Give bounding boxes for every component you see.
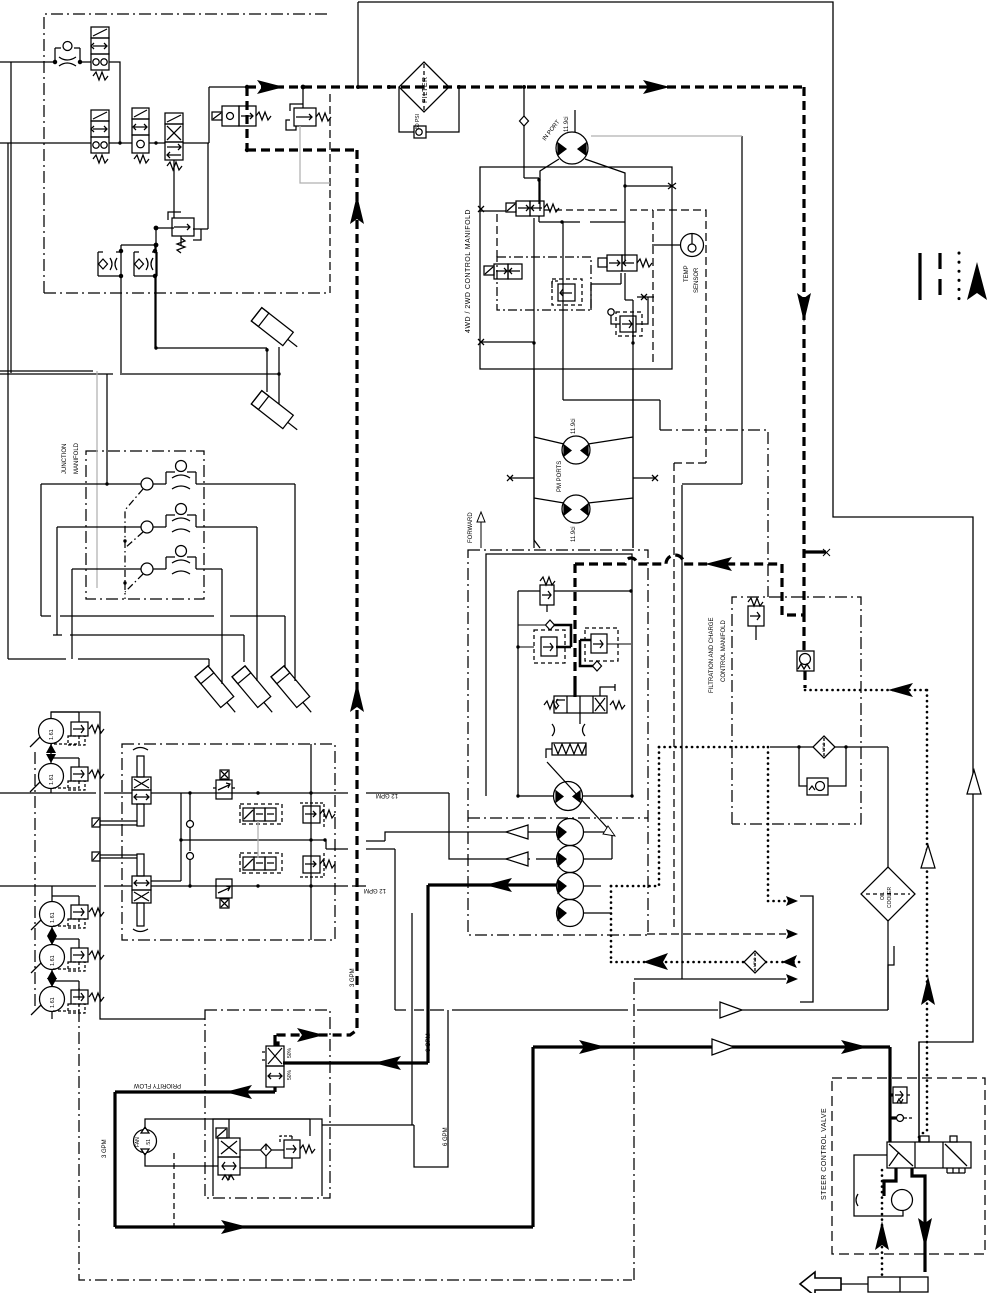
valve drive directional — [544, 684, 625, 713]
wire pump inlet from main — [524, 87, 539, 204]
component case drain diamond filter — [744, 951, 766, 973]
valve V4 solenoid 4way — [165, 113, 183, 170]
wire thick dashed charge y564 — [575, 555, 782, 564]
component oil cooler — [861, 867, 915, 921]
legend dashed bar — [938, 253, 941, 300]
component wheel relief R3 — [52, 896, 104, 928]
component compensator bottom — [216, 879, 232, 908]
valve drive solenoid bottom — [240, 853, 282, 873]
component junction orifice 3 — [166, 546, 196, 575]
component coupler 2 — [557, 846, 584, 873]
component cylinder S1 — [251, 308, 302, 353]
wire junction pilot dash-dot — [125, 489, 143, 599]
svg-text:1.61: 1.61 — [50, 912, 56, 923]
wire servo relief left thick — [550, 625, 571, 647]
wire junction right drops to cylinders — [222, 484, 295, 684]
valve V3 solenoid 2way — [132, 108, 149, 163]
arrow main y87 right at 265 — [257, 80, 284, 94]
component steer gerotor — [856, 1190, 913, 1211]
valve V1 solenoid 2way — [91, 27, 109, 80]
svg-text:1.61: 1.61 — [49, 729, 55, 740]
wire thick y1063 to priority valve — [283, 1061, 428, 1064]
wire drive line1 y793 — [151, 792, 449, 794]
valve spool1 — [132, 748, 151, 827]
wire cylinder feed y616 — [41, 616, 285, 668]
component junction check 2 — [141, 521, 153, 533]
orifice check unit A — [98, 249, 123, 277]
svg-text:SENSOR: SENSOR — [694, 267, 700, 293]
component cylinder A — [195, 666, 242, 718]
wire 4WD pilot dashed box — [657, 210, 706, 463]
wire thick dashed x357 — [355, 150, 358, 1019]
component compensator top — [213, 770, 236, 799]
arrow bracket y979 right — [786, 974, 798, 984]
wire thick x533 — [531, 1047, 534, 1227]
component strainer unit top-left — [53, 42, 81, 67]
wire drive line2b y849 — [326, 840, 395, 1010]
wire dotted y901 — [768, 900, 786, 903]
wire thick x115 — [113, 1092, 116, 1227]
svg-text:COOLER: COOLER — [887, 886, 893, 908]
wire thick dashed charge x575 — [573, 564, 576, 683]
component lever1 — [92, 818, 137, 827]
wire charge left drop — [517, 591, 519, 796]
arrow legend up — [967, 262, 987, 300]
wire solid y979 to bracket — [634, 978, 786, 980]
svg-text:11.9ci: 11.9ci — [571, 418, 577, 434]
component wheel motor W3 — [31, 902, 65, 931]
wire RV1 drain gray — [300, 126, 330, 183]
wire dotted y886 — [611, 885, 659, 888]
wire junction row3 y569 — [72, 568, 222, 570]
arrow steer dotted up x882 — [875, 1221, 889, 1250]
component filter diamond — [399, 62, 449, 112]
node x481 plug2 — [478, 339, 484, 345]
dotted case drain lines — [611, 690, 927, 1277]
component return strainer — [797, 651, 814, 671]
valve spool2 — [132, 854, 151, 932]
wire thick solid stub into drive valve — [573, 683, 576, 697]
svg-text:MANIFOLD: MANIFOLD — [74, 442, 80, 474]
wire SV1 pilot dashed — [544, 209, 653, 211]
legend dotted bar — [958, 253, 961, 300]
wire orifice drops — [121, 276, 155, 373]
wire main line y143 — [0, 142, 209, 144]
wire thick x890 into steer spool — [888, 1047, 891, 1142]
svg-text:TEMP: TEMP — [684, 265, 690, 282]
svg-text:3 GPM: 3 GPM — [350, 968, 356, 987]
wire charge inner box — [486, 554, 632, 796]
wire fan pump lines — [145, 1119, 310, 1166]
arrow x802 down at 300 — [797, 293, 811, 322]
component inline check diamond — [520, 116, 529, 126]
wire dotted x659 — [658, 747, 661, 886]
wire y400 link — [563, 400, 660, 430]
check open triangle y1010 — [720, 1002, 742, 1018]
arrow dotted x928 up at 990 — [921, 976, 935, 1005]
wire SV1 out y222 — [539, 216, 625, 222]
svg-text:STEER CONTROL VALVE: STEER CONTROL VALVE — [821, 1108, 828, 1200]
wire RV4 feed x156 — [156, 160, 174, 348]
wire thick dashed y150 — [247, 148, 357, 151]
valve V2 solenoid 2way — [91, 110, 109, 163]
node x650 plug — [641, 294, 647, 300]
wire solid vertical x682 — [681, 485, 683, 979]
check open triangle thick y1047 — [712, 1039, 734, 1055]
valve SV1 — [506, 201, 559, 216]
wire pm port stubs — [510, 477, 655, 479]
component drive pump — [554, 782, 583, 811]
wire x209 down from y87 — [209, 87, 247, 143]
wire left drop x8 — [7, 143, 9, 659]
wire drive manifold right vertical — [310, 744, 312, 940]
wire thick dashed x802 to filter — [804, 613, 805, 688]
arrow thick y885 left at 495 — [485, 878, 512, 892]
valve priority flow divider — [262, 1046, 284, 1087]
component coupler 4 — [557, 900, 584, 927]
component wheel relief R5 — [52, 981, 104, 1013]
wire 4WD manifold solid box — [480, 167, 672, 369]
wire RV4 right drain — [193, 143, 208, 240]
wire right lower boundary dash-dot — [633, 979, 635, 1280]
wire 4WD inner dash-dot box — [497, 257, 591, 310]
wire big solid tank-return box top — [358, 2, 973, 1142]
component servo relief left — [534, 630, 565, 663]
component wheel motor W2 — [30, 764, 64, 793]
wire thick drop x428 — [426, 885, 429, 1063]
wire fan return path — [322, 913, 448, 1167]
component check diamond left — [546, 620, 555, 630]
wire servo relief right thick — [580, 640, 599, 666]
wire thick steer check stub — [890, 1116, 896, 1119]
thick solid flow lines — [115, 885, 925, 1272]
component steer check — [897, 1115, 913, 1122]
valve V5 horizontal solenoid — [212, 106, 271, 126]
svg-text:50%: 50% — [287, 1069, 293, 1080]
valve SV3 — [598, 255, 652, 271]
arrow x357 up at 215 — [350, 195, 364, 224]
component cylinder S2 — [251, 391, 302, 436]
arrow main y87 right at 655 — [643, 80, 670, 94]
arrow thick y1227 right at 230 — [221, 1220, 248, 1234]
component junction check 3 — [141, 563, 153, 575]
wire dotted x928 — [919, 690, 927, 1142]
wire thick stub x804 solid — [804, 550, 826, 553]
wire SV1 line — [480, 210, 506, 212]
wire wheel motor chain bottom — [51, 1012, 53, 1019]
component check diamond right — [593, 661, 602, 671]
check open triangle dotted x928 up — [921, 845, 935, 868]
svg-text:50%: 50% — [287, 1047, 293, 1058]
wire tank to arrow — [841, 1283, 868, 1285]
component wheel relief R1 — [51, 712, 104, 745]
wire motors bottom into pump box — [534, 540, 633, 548]
wire drive pump manifold divider — [468, 817, 648, 819]
component wheel motor W5 — [31, 987, 65, 1016]
wire dotted y690 — [805, 689, 927, 692]
wire dotted steer x882 — [881, 1170, 884, 1277]
wire junction left drops — [41, 484, 72, 659]
legend solid bar — [918, 253, 921, 300]
component servo relief right — [585, 628, 618, 661]
relief drive bottom — [300, 853, 335, 877]
valve SV2 proportional — [484, 264, 522, 279]
wire priority inner solid box — [213, 1119, 322, 1196]
wire wheel motor group2 feed — [0, 886, 132, 902]
wire wheel motor line1 to spool — [0, 788, 132, 793]
wire pump bottom — [518, 795, 632, 797]
wire cooler riser — [887, 921, 889, 1010]
component wheel relief R4 — [52, 939, 104, 971]
wire thick dashed y1035 priority — [278, 1019, 357, 1046]
component tow arrow open — [800, 1272, 841, 1293]
arrow thick y1063 left at 385 — [374, 1056, 401, 1070]
arrow steer down x925 — [918, 1218, 932, 1248]
wire drive manifold internal links — [257, 821, 259, 858]
node pm plug right — [652, 475, 658, 481]
wire steer control valve box — [832, 1078, 985, 1254]
component fan pump — [134, 1127, 157, 1155]
wire junction row1 y484 — [41, 483, 295, 485]
arrow dotted y962 left at bracket — [782, 955, 797, 968]
svg-text:CONTROL MANIFOLD: CONTROL MANIFOLD — [721, 620, 727, 682]
node x481 plug — [478, 206, 484, 212]
wire cyl pair1 line y348 — [156, 348, 267, 392]
component manifold filter diamond — [813, 736, 835, 758]
wire return y484 to 4WD — [682, 483, 742, 485]
node dots top-left lines — [118, 85, 280, 376]
wire dashed y934 to bracket — [647, 933, 786, 935]
svg-text:PM PORTS: PM PORTS — [557, 461, 563, 492]
component wheel motor W4 — [31, 945, 65, 974]
wire dashed vertical x673 — [673, 463, 675, 930]
wire bottom machine boundary dash-dot — [79, 988, 632, 1280]
svg-text:FILTER: FILTER — [422, 76, 429, 103]
wire vertical x11 — [10, 62, 12, 373]
wire coupler right links — [583, 832, 612, 886]
big arrowheads — [221, 80, 987, 1250]
node plug x on charge stub — [823, 549, 830, 556]
wire 6gpm line y1010 — [395, 1009, 888, 1011]
relief RV1 — [286, 85, 331, 130]
wire thick y1227 — [115, 1225, 533, 1228]
component charge relief filtration — [748, 598, 764, 640]
wire M1 case return — [741, 136, 743, 484]
orifice check unit B — [134, 249, 157, 277]
component junction check 1 — [141, 478, 153, 490]
svg-text:50 PSI: 50 PSI — [415, 114, 421, 129]
svg-text:3 GPM: 3 GPM — [102, 1139, 108, 1158]
check open triangle y859 — [506, 852, 528, 866]
wire V1 to line jog — [109, 62, 120, 143]
wire thick priority valve inlet stub — [273, 1035, 276, 1046]
arrow y564 left at 715 — [705, 557, 732, 571]
svg-text:6 GPM: 6 GPM — [443, 1127, 449, 1146]
wire drive pump manifold box — [468, 550, 648, 935]
wire motor chain arrows — [46, 744, 57, 987]
relief drive top — [300, 803, 335, 827]
wire fan circuit links — [240, 1119, 310, 1168]
check open triangle x974 up — [967, 770, 981, 794]
wire drive line1 jog to coupler2 — [449, 793, 557, 859]
component tank — [868, 1277, 928, 1292]
node pm plug left — [507, 475, 513, 481]
arrow dotted y962 left at 655 — [643, 953, 668, 970]
wire cylinder feed y635 — [53, 635, 244, 662]
wire SV3 drop — [633, 297, 654, 343]
wire thick y1047 steer supply — [533, 1045, 890, 1048]
node x670 plug — [668, 183, 676, 189]
arrow dotted y690 left at 900 — [888, 683, 913, 697]
svg-text:4WD / 2WD CONTROL MANIFOLD: 4WD / 2WD CONTROL MANIFOLD — [465, 209, 472, 333]
wire machine boundary box A (top-left manifold) — [44, 14, 330, 293]
wire dotted y747 — [659, 746, 768, 749]
svg-text:12 GPM: 12 GPM — [376, 792, 398, 798]
wire box A right edge — [329, 94, 331, 293]
component fan relief — [280, 1136, 315, 1158]
valve fan solenoid — [216, 1128, 240, 1180]
svg-text:FILTRATION AND CHARGE: FILTRATION AND CHARGE — [709, 618, 715, 693]
svg-text:1.61: 1.61 — [50, 997, 56, 1008]
component steer relief — [893, 1087, 912, 1103]
check open triangle y832 — [506, 825, 528, 839]
component filtration check — [807, 778, 828, 795]
svg-text:PRIORITY FLOW: PRIORITY FLOW — [133, 1082, 181, 1088]
wire motor loop left — [534, 369, 564, 540]
svg-text:.51: .51 — [146, 1139, 152, 1146]
wire thick priority flow y1092 — [115, 1087, 275, 1092]
wire drive line3 y886 — [151, 885, 366, 887]
arrow y1035 right at 305 — [297, 1028, 324, 1042]
svg-text:11.9ci: 11.9ci — [571, 526, 577, 542]
component filter bypass check — [414, 126, 426, 138]
wire x181 — [151, 793, 181, 881]
wire steer feed x919 — [918, 1042, 920, 1142]
component junction orifice 1 — [166, 461, 196, 490]
wire charge line y591 — [518, 590, 631, 592]
wire drive line2 y840 — [181, 832, 557, 841]
wire dash-dot link 4WD to filtration — [660, 430, 768, 597]
svg-text:1.61: 1.61 — [49, 774, 55, 785]
component coupler 1 — [557, 819, 584, 846]
wire motor loop right — [588, 369, 633, 540]
wire 4wd bottom collectors — [480, 186, 633, 548]
node junction filter inlet — [357, 2, 359, 87]
wire junction manifold box — [86, 451, 204, 599]
valve drive solenoid top — [240, 804, 282, 824]
arrow bracket y934 right — [786, 929, 798, 939]
wire steer gerotor loop — [854, 1155, 903, 1216]
wire thick dashed main y87 — [247, 85, 802, 88]
arrow thick y1047 right at 855 — [841, 1040, 868, 1054]
svg-text:6 GPM: 6 GPM — [426, 1033, 432, 1052]
wire thick steer work lines — [884, 1168, 896, 1196]
wire junction feed x97 — [96, 371, 98, 588]
wire priority manifold box — [205, 1010, 330, 1198]
component cylinder C — [271, 666, 318, 718]
wire cooler feed y747 — [770, 746, 888, 748]
wire thick coupler3 line y885 — [428, 883, 557, 886]
open triangle checks — [506, 770, 981, 1055]
relief RV2 — [552, 279, 582, 305]
component motor M2 — [562, 436, 590, 464]
wire wheel motor top loop — [51, 712, 205, 1019]
svg-text:1.61: 1.61 — [50, 955, 56, 966]
wire left wheel boundary dash-dot — [34, 752, 36, 1010]
arrow thick y1092 left at 235 — [225, 1085, 252, 1099]
component fan check diamond — [261, 1144, 272, 1156]
component junction orifice 2 — [166, 504, 196, 533]
legend line samples — [920, 253, 959, 300]
wire filter bypass loop — [799, 747, 846, 786]
svg-text:11.9ci: 11.9ci — [564, 116, 570, 132]
wire filtration manifold box — [732, 597, 861, 824]
valve steer spool — [887, 1136, 971, 1173]
wire cyl pair1 line y373 — [0, 347, 279, 404]
wire RV4 to orifice row — [121, 228, 174, 252]
component check balls x190 — [187, 821, 194, 828]
svg-text:FAN: FAN — [135, 1137, 141, 1147]
component charge relief — [540, 577, 555, 612]
wire fan drain dashed — [173, 1153, 175, 1227]
component wheel relief R2 — [51, 758, 104, 790]
wire dotted x768 — [767, 747, 770, 901]
component pump servo — [546, 713, 586, 758]
wire junction row2 y527 — [57, 526, 257, 528]
relief RV4 — [154, 212, 194, 253]
arrow thick y1047 right at 590 — [579, 1040, 606, 1054]
component motor M1 — [556, 110, 588, 164]
wire thick dashed x802 down — [802, 87, 805, 613]
component coupler 3 — [557, 873, 584, 900]
component wheel motor W1 — [30, 719, 64, 748]
component lever2 — [92, 852, 137, 861]
wire M1 ports — [540, 159, 625, 211]
svg-text:MFLD: MFLD — [753, 957, 757, 967]
component motor M3 — [562, 495, 590, 523]
thick dashed charge/priority lines — [247, 87, 805, 1046]
bracket collector — [800, 896, 813, 1002]
wire coupler4 line — [583, 912, 612, 914]
wire dotted x611 — [610, 886, 613, 962]
wire dotted y962 — [611, 961, 800, 964]
wire x190 checks — [189, 793, 191, 886]
arrow x357 up at 700 — [350, 683, 364, 712]
wire thick dashed x247 — [245, 87, 248, 150]
wire thick steer relief stub — [890, 1093, 893, 1096]
svg-text:12 GPM: 12 GPM — [364, 887, 386, 893]
svg-text:JUNCTION: JUNCTION — [62, 444, 68, 474]
wire main line y62 — [0, 61, 91, 63]
component cylinder B — [232, 666, 279, 718]
svg-text:OIL: OIL — [880, 892, 886, 900]
svg-text:MFLD: MFLD — [822, 742, 826, 752]
wire cylinder feed y659 — [8, 659, 209, 666]
arrow bracket y901 right — [786, 896, 798, 906]
relief RV3 — [608, 297, 648, 336]
wire filter bypass — [399, 87, 459, 132]
wire servo links — [518, 625, 631, 647]
component temp sensor — [652, 234, 704, 257]
wire steer 6gpm riser — [888, 946, 894, 1010]
wire drive spool manifold box — [122, 744, 335, 940]
wire swash diagonal — [547, 762, 612, 833]
svg-text:FORWARD: FORWARD — [468, 512, 474, 543]
wire 4wd top right — [625, 185, 672, 187]
wire thick dashed charge jog — [782, 564, 804, 615]
